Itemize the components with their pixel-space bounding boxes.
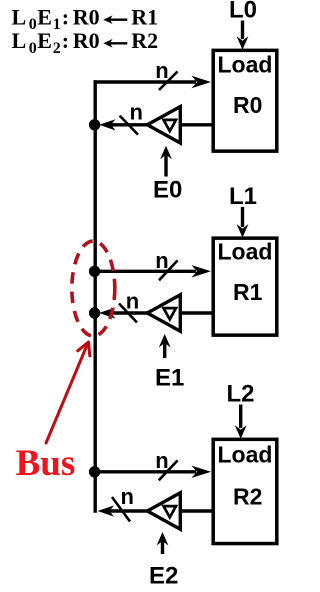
svg-text:L2: L2	[227, 381, 255, 408]
svg-text:n: n	[155, 448, 168, 473]
svg-text:E: E	[37, 28, 52, 53]
svg-text:n: n	[121, 484, 134, 509]
svg-text:R2: R2	[131, 28, 158, 53]
svg-text:n: n	[155, 248, 168, 273]
svg-text:R2: R2	[233, 484, 262, 510]
svg-text:E: E	[37, 5, 52, 30]
svg-text:1: 1	[53, 16, 61, 33]
svg-text:R1: R1	[131, 5, 158, 30]
svg-text:R0: R0	[233, 92, 262, 118]
svg-text:L1: L1	[229, 183, 257, 210]
svg-text:n: n	[130, 100, 143, 125]
svg-text:Load: Load	[218, 52, 273, 78]
svg-text:E0: E0	[153, 177, 182, 204]
svg-text:R0: R0	[73, 5, 100, 30]
svg-text:2: 2	[53, 40, 61, 57]
svg-text:R0: R0	[73, 28, 100, 53]
svg-text:n: n	[126, 289, 139, 314]
svg-text:Load: Load	[218, 442, 273, 468]
svg-text:E2: E2	[149, 562, 178, 589]
svg-text:Bus: Bus	[16, 443, 76, 484]
svg-text:0: 0	[29, 40, 37, 57]
svg-text:L: L	[12, 28, 27, 53]
svg-text:R1: R1	[233, 279, 263, 305]
svg-text:Load: Load	[218, 239, 273, 265]
svg-text:L: L	[12, 5, 27, 30]
svg-text:L0: L0	[229, 0, 257, 24]
svg-text::: :	[62, 5, 69, 30]
svg-text::: :	[62, 28, 69, 53]
svg-text:n: n	[155, 58, 168, 83]
svg-text:0: 0	[29, 16, 37, 33]
svg-text:E1: E1	[155, 364, 184, 391]
